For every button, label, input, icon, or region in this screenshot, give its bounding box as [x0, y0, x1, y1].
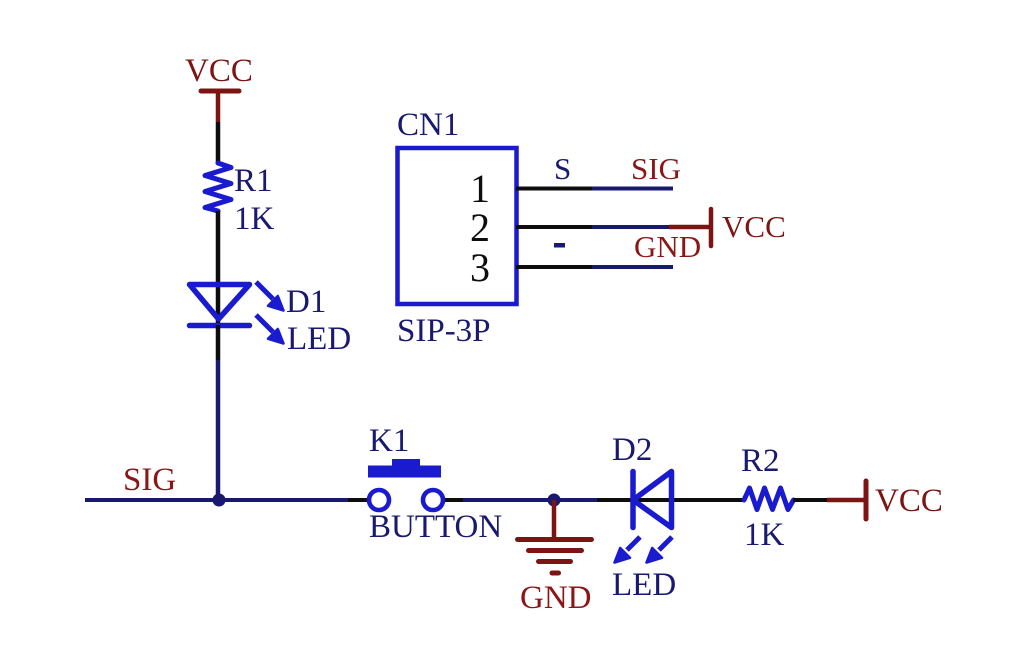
LED D1 light arrow 1	[256, 282, 284, 311]
node junction B	[548, 494, 561, 507]
pin 2 lead	[516, 225, 592, 229]
ground stem	[552, 500, 557, 538]
wire R2 to VCC (black pin)	[794, 498, 828, 502]
ground bar 1	[518, 537, 592, 542]
svg-text:LED: LED	[287, 321, 351, 357]
LED D1 cathode bar	[190, 323, 250, 329]
svg-text:LED: LED	[612, 567, 676, 603]
LED D2 triangle	[633, 472, 672, 528]
power VCC (right) stem	[827, 498, 864, 503]
svg-text:VCC: VCC	[722, 209, 786, 244]
svg-text:1K: 1K	[234, 201, 275, 237]
pin 2 wire	[592, 225, 669, 229]
power VCC (pin 2) bar	[709, 209, 714, 246]
svg-text:BUTTON: BUTTON	[369, 509, 502, 545]
svg-text:VCC: VCC	[875, 483, 943, 519]
pushbutton K1 right contact	[423, 490, 443, 510]
pin 1 lead	[516, 187, 592, 191]
ground bar 3	[539, 559, 571, 564]
node junction A	[213, 494, 226, 507]
pin 3 lead	[516, 265, 592, 269]
wire pin left of K1	[348, 498, 370, 502]
svg-text:1K: 1K	[744, 517, 785, 553]
power VCC (top left) stem	[216, 91, 221, 122]
LED D2 light arrow 1	[615, 537, 641, 563]
resistor R1	[205, 163, 231, 211]
connector CN1 body	[398, 148, 517, 304]
wire node to D2	[597, 498, 745, 502]
pushbutton K1 plunger	[392, 459, 420, 466]
LED D1 light arrow 2	[256, 315, 284, 344]
LED D2 cathode bar	[630, 472, 636, 528]
svg-text:2: 2	[470, 205, 490, 250]
wire D1 to node (blue wire part)	[216, 360, 221, 500]
LED D2 light arrow 2	[647, 537, 673, 563]
svg-text:CN1: CN1	[397, 107, 459, 143]
pushbutton K1 body	[368, 466, 441, 478]
svg-text:K1: K1	[369, 423, 409, 459]
svg-text:3: 3	[470, 245, 490, 290]
pin label minus	[554, 243, 565, 248]
power VCC (right) bar	[864, 481, 869, 519]
svg-text:S: S	[554, 151, 571, 186]
resistor R2	[744, 488, 794, 510]
wire D1 to node (black pin part)	[216, 325, 221, 360]
svg-text:SIG: SIG	[123, 462, 176, 498]
svg-text:SIP-3P: SIP-3P	[397, 313, 491, 349]
ground bar 2	[529, 548, 582, 553]
svg-text:R1: R1	[234, 163, 273, 199]
svg-text:VCC: VCC	[185, 53, 253, 89]
svg-text:D2: D2	[612, 432, 652, 468]
LED D1 triangle	[190, 285, 250, 320]
svg-text:SIG: SIG	[631, 151, 681, 186]
power VCC (top left) bar	[201, 89, 239, 94]
ground bar 4	[552, 571, 559, 576]
pushbutton K1 left contact	[369, 490, 389, 510]
wire K1 to ground node	[463, 498, 597, 502]
svg-text:GND: GND	[520, 580, 592, 616]
svg-text:GND: GND	[634, 229, 701, 264]
wire pin VCC to R1	[216, 122, 221, 164]
pin 3 wire	[592, 265, 673, 269]
svg-text:D1: D1	[286, 284, 326, 320]
wire R1 to D1	[216, 211, 221, 325]
wire SIG horizontal left	[85, 498, 348, 502]
svg-text:R2: R2	[741, 443, 780, 479]
power VCC (pin 2) stem	[669, 225, 709, 230]
pin 1 wire	[592, 187, 673, 191]
wire pin right of K1	[442, 498, 463, 502]
